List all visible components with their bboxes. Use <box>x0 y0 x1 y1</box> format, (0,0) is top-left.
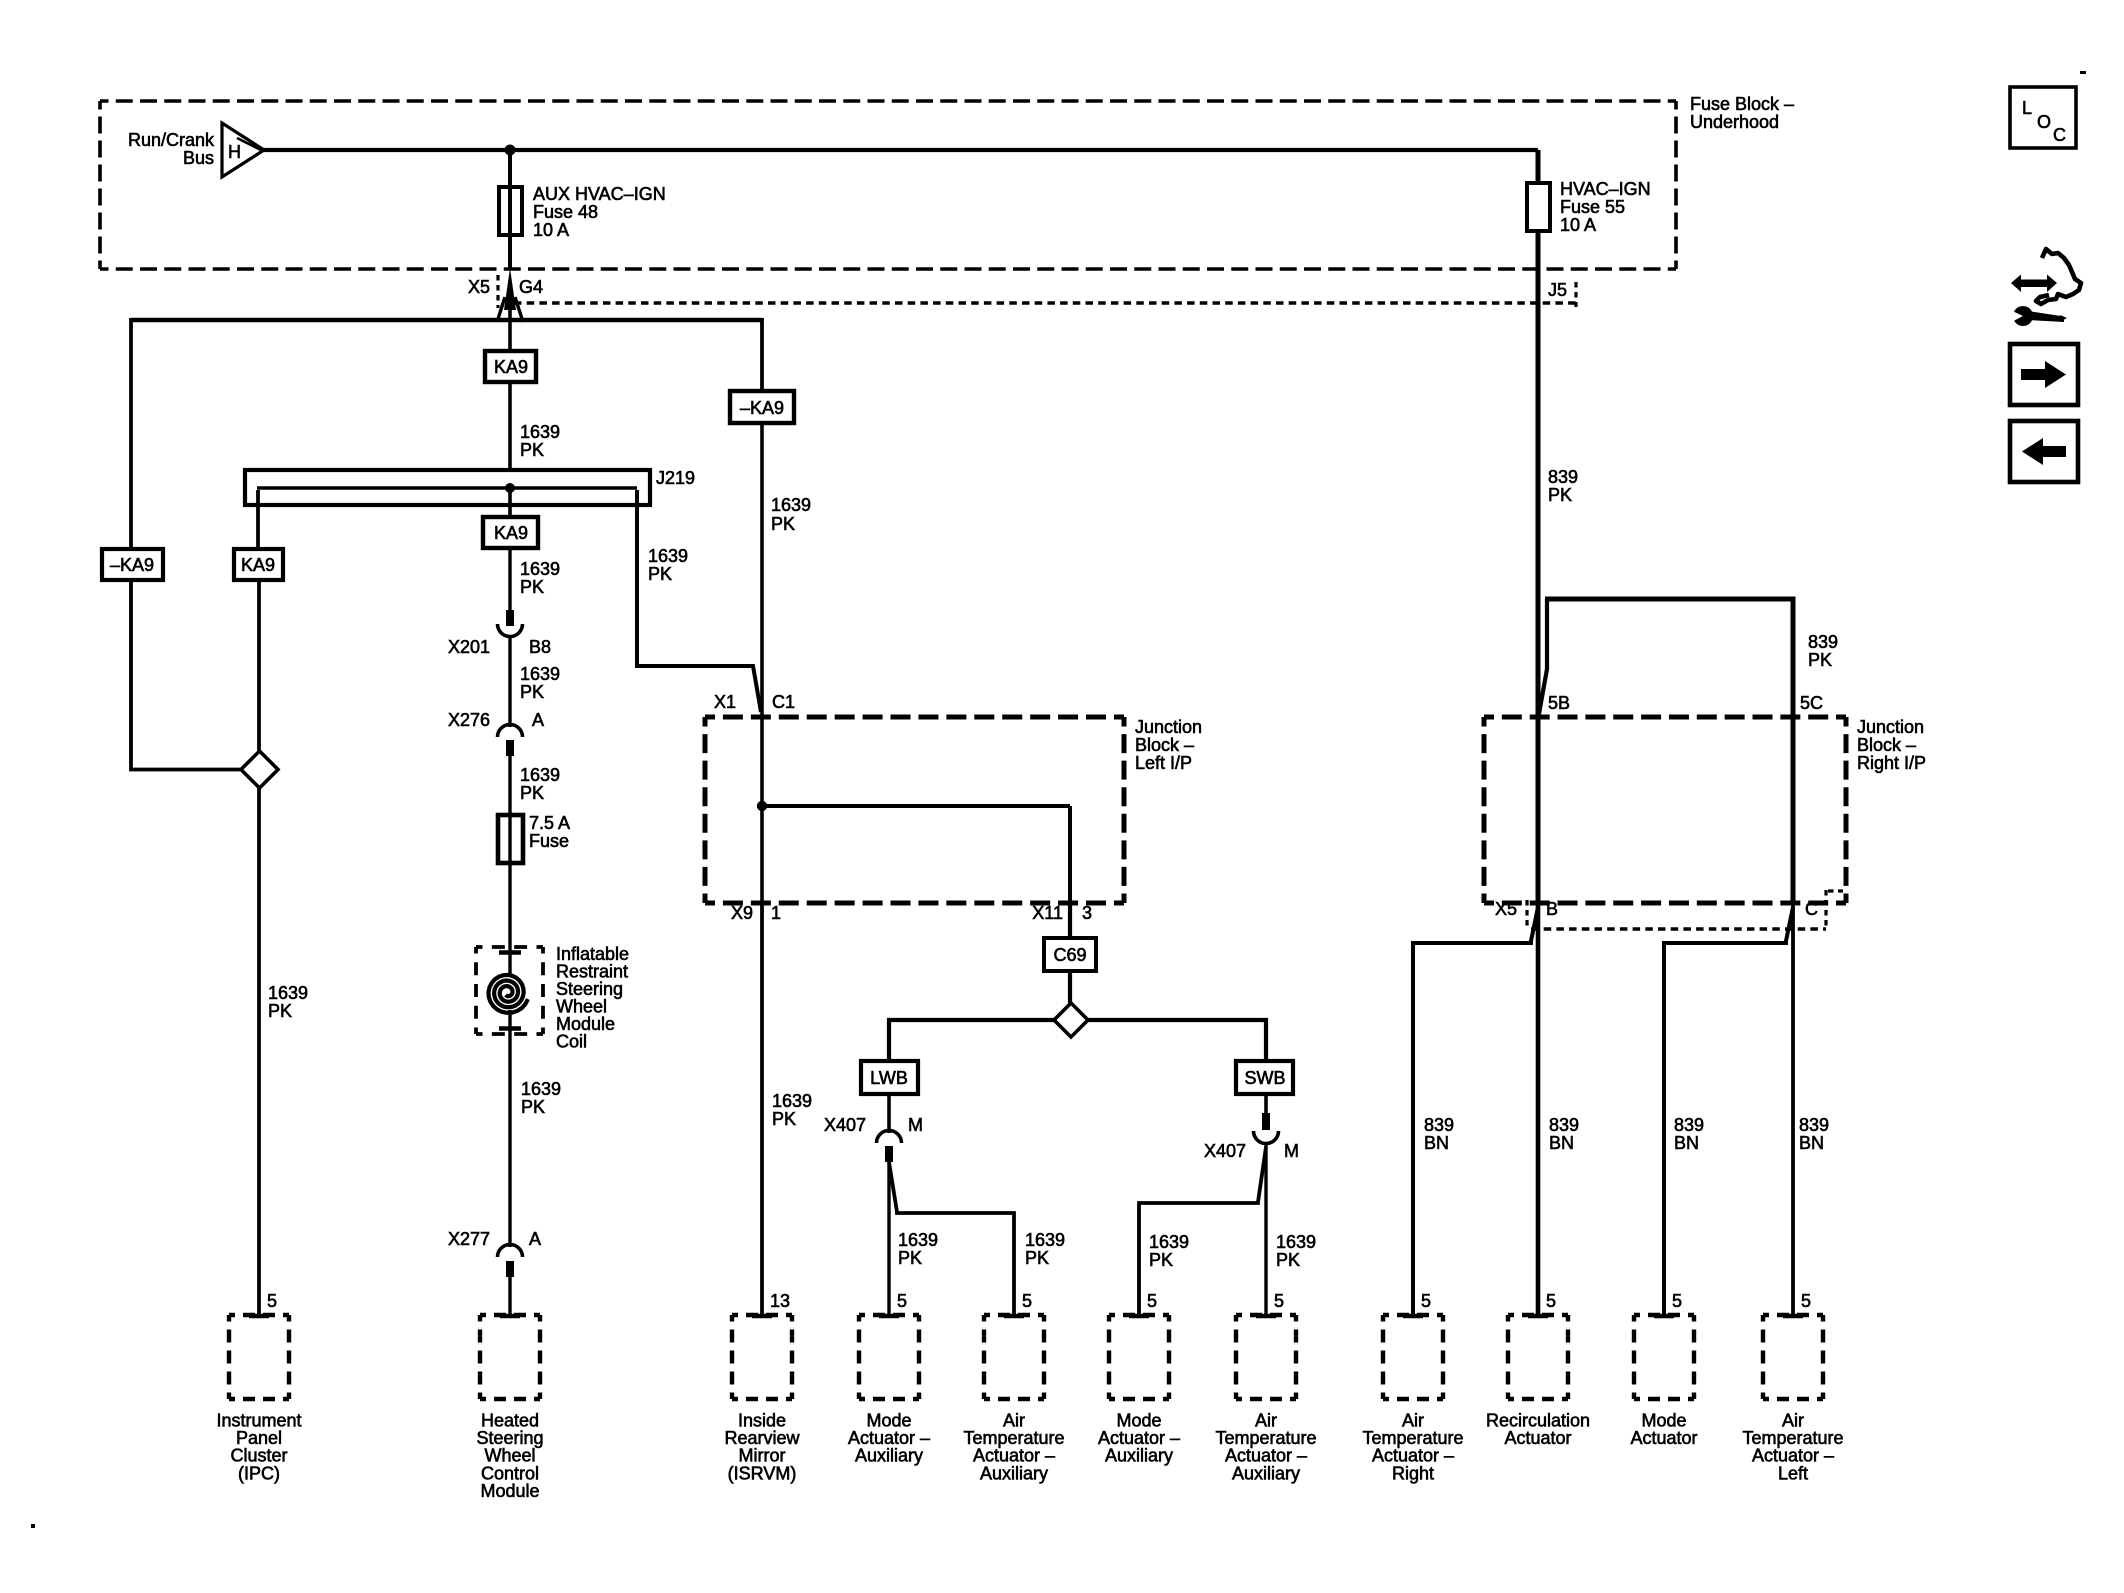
svg-text:5: 5 <box>1022 1291 1032 1311</box>
wire: X9 down to ISRVM <box>760 903 764 1316</box>
wire: coil to X277 <box>508 1010 511 1247</box>
svg-text:5: 5 <box>1274 1291 1284 1311</box>
svg-text:C1: C1 <box>772 692 795 712</box>
svg-text:LWB: LWB <box>870 1068 908 1088</box>
relay contact -KA9 (far left) <box>102 549 163 580</box>
fuse block underhood dashed box <box>100 99 1676 103</box>
connector X277 cavity A cup <box>498 1245 523 1258</box>
connector X9 pin 1 labels <box>731 903 781 923</box>
wire: SWB to X407 <box>1264 1094 1268 1115</box>
page mark bottom left <box>31 1524 35 1528</box>
node: bus junction dot <box>505 145 516 156</box>
wire 1639 PK label (mode actuator aux 2 feed) <box>1149 1232 1189 1270</box>
wire 1639 PK label (air temp actuator aux 2 feed) <box>1276 1232 1316 1270</box>
node: junction dot in left junction block <box>757 801 767 811</box>
run/crank bus triangle H <box>222 123 264 177</box>
svg-text:5: 5 <box>1801 1291 1811 1311</box>
svg-text:Right: Right <box>1392 1463 1434 1483</box>
svg-text:BN: BN <box>1424 1133 1449 1153</box>
icon: back arrow box <box>2010 421 2078 482</box>
component box: instrument panel cluster (IPC) <box>229 1313 289 1317</box>
splice diamond (IPC feed) <box>241 751 278 788</box>
svg-text:Module: Module <box>480 1481 539 1501</box>
svg-text:B: B <box>1546 899 1558 919</box>
svg-text:X5: X5 <box>1495 899 1517 919</box>
svg-text:1639: 1639 <box>898 1230 938 1250</box>
block SWB <box>1236 1061 1293 1094</box>
connector J5 label <box>1548 280 1567 300</box>
wire: run/crank bus horizontal <box>263 148 1538 152</box>
svg-text:BN: BN <box>1549 1133 1574 1153</box>
svg-text:5: 5 <box>897 1291 907 1311</box>
svg-text:HVAC–IGN: HVAC–IGN <box>1560 179 1651 199</box>
wire: X407 SWB down to air temp actuator aux <box>1264 1142 1267 1316</box>
svg-text:Junction: Junction <box>1857 717 1924 737</box>
svg-text:Left: Left <box>1778 1463 1808 1483</box>
connector X277 pin <box>506 1261 514 1277</box>
wire 1639 PK label on J219 right exit <box>648 546 688 584</box>
wire: splice to IPC <box>257 788 261 1316</box>
wire: B feed through right junction block <box>1536 716 1541 903</box>
svg-text:5: 5 <box>1546 1291 1556 1311</box>
wire: LWB to X407 <box>887 1094 891 1133</box>
svg-text:1639: 1639 <box>520 422 560 442</box>
svg-text:5: 5 <box>1147 1291 1157 1311</box>
svg-text:X11: X11 <box>1032 903 1063 923</box>
wire: right branch of G4 fanout down to -KA9 <box>760 318 764 393</box>
wire 1639 PK label <box>521 1079 561 1117</box>
wire: X277 to heated steering wheel module <box>508 1275 511 1316</box>
coil spiral <box>489 975 528 1013</box>
wire 1639 PK ISRVM label <box>772 1091 812 1129</box>
wire: B down to recirculation actuator <box>1536 903 1541 1316</box>
svg-text:1639: 1639 <box>771 495 811 515</box>
svg-text:Junction: Junction <box>1135 717 1202 737</box>
svg-text:5B: 5B <box>1548 693 1570 713</box>
svg-text:X1: X1 <box>714 692 736 712</box>
svg-text:–KA9: –KA9 <box>740 398 784 418</box>
connector X5 bottom dotted row <box>1531 927 1826 931</box>
wire: KA9 down to splice diamond <box>257 580 261 753</box>
wire: X201 to X276 <box>508 635 511 727</box>
svg-text:(ISRVM): (ISRVM) <box>728 1463 797 1483</box>
wire 839 BN label (air temp actuator right) <box>1424 1115 1454 1153</box>
svg-text:BN: BN <box>1799 1133 1824 1153</box>
relay contact KA9 (left) <box>234 549 283 580</box>
component box: recirculation actuator <box>1508 1313 1568 1317</box>
svg-text:O: O <box>2037 112 2051 132</box>
svg-text:X201: X201 <box>448 637 490 657</box>
svg-text:PK: PK <box>1025 1248 1049 1268</box>
wire: G4 split tent <box>497 297 523 322</box>
connector J5 separator tick <box>1574 282 1577 307</box>
connector X407 cavity M (LWB) cup <box>877 1130 902 1143</box>
svg-text:X407: X407 <box>1204 1141 1246 1161</box>
connector C label and tick <box>1805 899 1818 919</box>
junction block right I/P dashed box <box>1484 715 1846 720</box>
wire: X276 to 7.5A fuse <box>508 754 511 817</box>
splice pack J219 <box>245 470 650 505</box>
wire: jog right toward C1 <box>637 666 761 712</box>
svg-text:C: C <box>2053 125 2066 145</box>
svg-text:Auxiliary: Auxiliary <box>1105 1446 1173 1466</box>
wire 1639 PK label <box>520 559 560 597</box>
connector X201 cavity B8 cup <box>498 624 523 637</box>
node: J219 junction dot <box>505 483 515 493</box>
svg-text:L: L <box>2022 98 2032 118</box>
connector X5/G4 separator tick <box>496 275 499 308</box>
inflatable restraint steering wheel module coil dashed box <box>476 945 543 949</box>
wire: C branch to mode actuator <box>1664 907 1793 1316</box>
wire: G4 center drop to KA9 <box>508 300 512 351</box>
svg-text:839: 839 <box>1808 632 1838 652</box>
svg-text:Fuse: Fuse <box>529 831 569 851</box>
svg-text:C: C <box>1805 899 1818 919</box>
svg-text:J5: J5 <box>1548 280 1567 300</box>
svg-text:1639: 1639 <box>1025 1230 1065 1250</box>
svg-text:M: M <box>1284 1141 1299 1161</box>
svg-text:A: A <box>532 710 544 730</box>
wire: lower KA9 (center) from J219 <box>508 490 512 519</box>
svg-text:13: 13 <box>770 1291 790 1311</box>
svg-text:PK: PK <box>648 564 672 584</box>
component box: heated steering wheel control module <box>480 1313 540 1317</box>
svg-text:1: 1 <box>771 903 781 923</box>
wire: J219 left exit down <box>256 490 260 551</box>
wire: J219 right exit down <box>635 490 639 668</box>
svg-text:PK: PK <box>898 1248 922 1268</box>
svg-text:KA9: KA9 <box>494 523 528 543</box>
svg-text:1639: 1639 <box>1276 1232 1316 1252</box>
junction block left I/P dashed box <box>705 715 1124 720</box>
svg-text:PK: PK <box>772 1109 796 1129</box>
component box: mode actuator - auxiliary (left) <box>859 1313 919 1317</box>
svg-text:J219: J219 <box>656 468 695 488</box>
svg-text:3: 3 <box>1082 903 1092 923</box>
svg-text:1639: 1639 <box>648 546 688 566</box>
svg-text:Coil: Coil <box>556 1032 587 1052</box>
wire 1639 PK IPC label <box>268 983 308 1021</box>
component box: air temperature actuator - auxiliary (right) <box>1236 1313 1296 1317</box>
wire: X407 LWB down to mode actuator aux <box>887 1160 890 1316</box>
svg-text:H: H <box>228 142 241 162</box>
svg-text:Fuse 55: Fuse 55 <box>1560 197 1625 217</box>
svg-text:PK: PK <box>1808 650 1832 670</box>
svg-text:1639: 1639 <box>521 1079 561 1099</box>
component box: mode actuator - auxiliary (right) <box>1109 1313 1169 1317</box>
icon: component location view (vehicle outline, two-way arrow, wrench) <box>2006 249 2081 326</box>
fuse F48 AUX HVAC-IGN <box>499 187 522 235</box>
connector X5/B separator tick <box>1525 900 1528 927</box>
wire: X407 LWB jog to air temp actuator aux <box>889 1162 1014 1316</box>
svg-text:Bus: Bus <box>183 148 214 168</box>
connector X407 cavity M (SWB) cup <box>1254 1131 1279 1144</box>
connector C69 <box>1044 938 1096 971</box>
splice diamond (LWB/SWB) <box>1054 1003 1088 1037</box>
wire: junction block internal horizontal <box>762 804 1070 808</box>
svg-text:Actuator: Actuator <box>1630 1428 1697 1448</box>
svg-text:C69: C69 <box>1053 945 1086 965</box>
svg-text:AUX HVAC–IGN: AUX HVAC–IGN <box>533 184 666 204</box>
svg-text:5: 5 <box>267 1291 277 1311</box>
connector X11 pin 3 labels <box>1032 903 1092 923</box>
wire: C feed through right junction block <box>1791 717 1796 903</box>
connector X276 cavity A cup <box>498 725 523 738</box>
component box: mode actuator <box>1634 1313 1694 1317</box>
svg-text:G4: G4 <box>519 277 543 297</box>
svg-text:1639: 1639 <box>520 664 560 684</box>
wire: left branch of G4 fanout down <box>129 318 133 551</box>
connector 5B label <box>1548 693 1570 713</box>
wire: X11 down to C69 <box>1068 903 1072 940</box>
connector X5 pin G4 labels <box>468 277 543 297</box>
wire 839 PK label (5C drop) <box>1808 632 1838 670</box>
wire: -KA9 down to C1 <box>760 423 764 719</box>
svg-text:Auxiliary: Auxiliary <box>855 1446 923 1466</box>
svg-text:PK: PK <box>520 440 544 460</box>
page mark top right <box>2080 71 2086 74</box>
fuse F55 HVAC-IGN <box>1527 183 1550 231</box>
wire: 5B branch up and right to 5C <box>1539 599 1547 714</box>
wire: diamond to SWB <box>1088 1020 1266 1063</box>
svg-text:X5: X5 <box>468 277 490 297</box>
wire 839 PK label (J5 drop) <box>1548 467 1578 505</box>
svg-text:Left I/P: Left I/P <box>1135 753 1192 773</box>
svg-text:PK: PK <box>520 577 544 597</box>
svg-text:SWB: SWB <box>1244 1068 1285 1088</box>
svg-text:Block –: Block – <box>1857 735 1916 755</box>
svg-text:7.5 A: 7.5 A <box>529 813 570 833</box>
wire: junction block internal drop to X11 <box>1068 806 1072 903</box>
svg-text:839: 839 <box>1424 1115 1454 1135</box>
component box: air temperature actuator - right <box>1383 1313 1443 1317</box>
svg-text:PK: PK <box>771 514 795 534</box>
svg-text:X407: X407 <box>824 1115 866 1135</box>
component box: inside rearview mirror (ISRVM) <box>732 1313 792 1317</box>
svg-text:Auxiliary: Auxiliary <box>1232 1463 1300 1483</box>
wire: KA9 to J219 <box>508 382 512 470</box>
component box: air temperature actuator - auxiliary (left) <box>984 1313 1044 1317</box>
svg-text:Block –: Block – <box>1135 735 1194 755</box>
svg-text:5: 5 <box>1672 1291 1682 1311</box>
wire: C1 through junction block <box>760 717 764 903</box>
svg-text:B8: B8 <box>529 637 551 657</box>
relay contact -KA9 (right) <box>730 391 794 423</box>
connector X407 (SWB) pin <box>1262 1113 1270 1130</box>
wire: B branch to air temp actuator right <box>1413 907 1538 1316</box>
svg-text:PK: PK <box>1149 1250 1173 1270</box>
svg-text:Underhood: Underhood <box>1690 112 1779 132</box>
wire 839 BN label (air temp actuator left) <box>1799 1115 1829 1153</box>
svg-text:1639: 1639 <box>772 1091 812 1111</box>
connector X5 row dotted line <box>514 301 1576 305</box>
connector 5C label <box>1800 693 1823 713</box>
svg-text:10 A: 10 A <box>533 220 569 240</box>
connector X407 (LWB) pin <box>885 1146 893 1162</box>
svg-text:X277: X277 <box>448 1229 490 1249</box>
wire 1639 PK label (mode actuator aux feed) <box>898 1230 938 1268</box>
wire 839 BN label (recirculation actuator) <box>1549 1115 1579 1153</box>
block LWB <box>861 1061 918 1094</box>
wire 1639 PK label (air temp actuator aux feed) <box>1025 1230 1065 1268</box>
fuse 7.5 A <box>498 815 523 863</box>
svg-text:839: 839 <box>1799 1115 1829 1135</box>
connector G4 male pin <box>504 268 516 310</box>
connector X1 pin C1 labels <box>714 692 795 712</box>
fuse block label <box>1690 94 1794 132</box>
connector X5 pin B labels <box>1495 899 1558 919</box>
svg-text:10 A: 10 A <box>1560 215 1596 235</box>
wire 1639 PK center label <box>520 422 560 460</box>
svg-text:Auxiliary: Auxiliary <box>980 1463 1048 1483</box>
wire 1639 PK label <box>520 765 560 803</box>
svg-text:–KA9: –KA9 <box>110 555 154 575</box>
svg-text:X276: X276 <box>448 710 490 730</box>
wire: C69 to splice diamond <box>1068 971 1072 1004</box>
svg-text:1639: 1639 <box>520 559 560 579</box>
wire: fuse 55 drop from bus corner <box>1536 150 1541 716</box>
svg-text:BN: BN <box>1674 1133 1699 1153</box>
svg-text:A: A <box>529 1229 541 1249</box>
svg-text:Right I/P: Right I/P <box>1857 753 1926 773</box>
svg-text:(IPC): (IPC) <box>238 1463 280 1483</box>
connector X201 pin <box>506 610 514 626</box>
wire 1639 PK label right of -KA9 wire <box>771 495 811 534</box>
svg-text:1639: 1639 <box>520 765 560 785</box>
svg-text:Run/Crank: Run/Crank <box>128 130 215 150</box>
svg-text:PK: PK <box>1276 1250 1300 1270</box>
relay contact KA9 (center lower) <box>483 517 538 548</box>
run/crank bus label <box>128 130 215 168</box>
svg-text:Actuator: Actuator <box>1504 1428 1571 1448</box>
icon: forward arrow box <box>2010 344 2078 405</box>
svg-text:839: 839 <box>1549 1115 1579 1135</box>
svg-text:1639: 1639 <box>1149 1232 1189 1252</box>
relay contact KA9 (center) <box>485 351 536 382</box>
svg-text:PK: PK <box>521 1097 545 1117</box>
svg-text:5: 5 <box>1421 1291 1431 1311</box>
wire: fuse 48 drop <box>508 150 512 270</box>
svg-text:M: M <box>908 1115 923 1135</box>
svg-text:1639: 1639 <box>268 983 308 1003</box>
svg-text:X9: X9 <box>731 903 753 923</box>
svg-text:KA9: KA9 <box>494 357 528 377</box>
wire: diamond to LWB <box>889 1020 1054 1063</box>
svg-text:PK: PK <box>268 1001 292 1021</box>
svg-text:839: 839 <box>1548 467 1578 487</box>
wire: fuse to coil <box>508 863 511 975</box>
connector X276 pin <box>506 740 514 756</box>
wire: C down to air temp actuator left <box>1791 903 1795 1316</box>
wire: G4 fanout horizontal <box>131 318 762 323</box>
wire 839 BN label (mode actuator) <box>1674 1115 1704 1153</box>
wire 1639 PK label <box>520 664 560 702</box>
svg-text:PK: PK <box>1548 485 1572 505</box>
wire: -KA9 down and right to splice diamond <box>131 580 243 770</box>
svg-text:Fuse 48: Fuse 48 <box>533 202 598 222</box>
icon: LOC box <box>2010 87 2076 148</box>
svg-text:KA9: KA9 <box>241 555 275 575</box>
wire: X407 SWB jog to mode actuator aux <box>1139 1147 1266 1316</box>
svg-text:839: 839 <box>1674 1115 1704 1135</box>
wire: KA9 to X201 <box>508 548 511 612</box>
svg-text:Fuse Block –: Fuse Block – <box>1690 94 1794 114</box>
svg-text:PK: PK <box>520 783 544 803</box>
component box: air temperature actuator - left <box>1763 1313 1823 1317</box>
svg-text:5C: 5C <box>1800 693 1823 713</box>
svg-text:PK: PK <box>520 682 544 702</box>
